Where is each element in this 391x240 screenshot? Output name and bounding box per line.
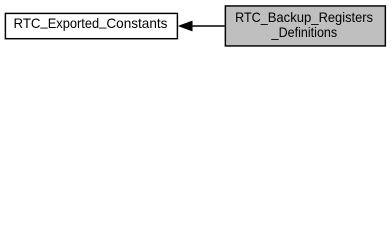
svg-text:RTC_Backup_Registers: RTC_Backup_Registers (235, 10, 373, 25)
svg-text:RTC_Exported_Constants: RTC_Exported_Constants (14, 14, 168, 32)
background (0, 0, 391, 52)
arrowhead (178, 21, 192, 31)
node RTC_Exported_Constants (5, 13, 177, 38)
wire (192, 25, 225, 27)
node RTC_Backup_Registers_Definitions (current, filled) (225, 6, 385, 46)
svg-text:_Definitions: _Definitions (270, 25, 337, 40)
edge arrow from RTC_Backup_Registers_Definitions to RTC_Exported_Constants (178, 21, 224, 31)
